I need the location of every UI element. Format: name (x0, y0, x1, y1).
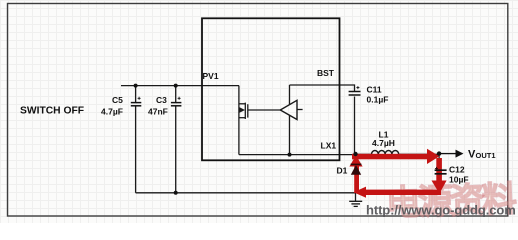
wire ground rail (136, 192, 440, 194)
wire LX internal (239, 154, 356, 156)
transistor Q1 (internal MOSFET) (239, 103, 248, 119)
svg-text:C5: C5 (112, 95, 123, 105)
svg-text:PV1: PV1 (203, 71, 219, 81)
svg-text:SWITCH OFF: SWITCH OFF (20, 106, 84, 117)
wire BST internal (290, 85, 355, 91)
svg-text:BST: BST (317, 68, 335, 78)
wire C3 top lead (175, 86, 177, 102)
wire C11 bottom lead (354, 97, 356, 154)
svg-text:LX1: LX1 (321, 141, 337, 151)
wire C12 top lead (438, 154, 440, 170)
op-amp gate driver triangle (280, 100, 297, 119)
svg-text:4.7µH: 4.7µH (372, 138, 395, 148)
wire driver top feed (289, 85, 291, 105)
wire C5 top lead (135, 86, 137, 102)
wire driver bottom to LX (289, 115, 291, 155)
current loop arrow top (through L1) (352, 149, 440, 164)
node dot C3/ground rail (174, 191, 178, 195)
wire drain-source vertical (238, 86, 240, 155)
capacitor C12 (drawn over red) (435, 165, 469, 185)
svg-text:0.1µF: 0.1µF (367, 95, 389, 105)
node dot driver/LX (288, 153, 292, 157)
svg-text:C12: C12 (449, 165, 465, 175)
IC outline box (202, 18, 340, 160)
wire D1 bottom lead (355, 175, 357, 202)
svg-text:C11: C11 (367, 85, 382, 95)
wire PV1 rail (121, 85, 239, 87)
inductor L1 (356, 130, 441, 155)
node dot C3/PV1 rail (174, 84, 178, 88)
svg-text:OUT1: OUT1 (476, 151, 496, 160)
wire gate lead (248, 109, 280, 111)
svg-text:C3: C3 (156, 95, 167, 105)
current loop arrow right (through C12) (432, 158, 447, 194)
current loop arrow left (through D1) (349, 155, 362, 193)
svg-text:47nF: 47nF (148, 107, 168, 117)
transistor Q1 body arrow (240, 107, 246, 113)
svg-text:10µF: 10µF (449, 175, 469, 185)
node dot LX/D1/L1 (353, 152, 357, 156)
node dot C5/PV1 rail (134, 84, 138, 88)
diode D1 (dark over red) (337, 164, 362, 175)
output wire and arrow VOUT1 (440, 149, 496, 161)
wire C3 bottom lead (175, 106, 177, 193)
svg-text:http://www.go-gddq.com: http://www.go-gddq.com (366, 203, 516, 218)
capacitor C5 (101, 95, 141, 117)
svg-text:4.7µF: 4.7µF (101, 107, 123, 117)
wire driver input stub (297, 109, 303, 111)
capacitor C3 (148, 95, 181, 117)
capacitor C11 (349, 85, 389, 105)
ground symbol (349, 201, 362, 206)
wire C5 bottom lead (135, 106, 137, 193)
wire C12 bottom lead (438, 175, 440, 193)
wire D1 top lead (355, 154, 357, 165)
svg-text:D1: D1 (337, 166, 348, 176)
node dot L1/C12/VOUT (437, 151, 441, 155)
current loop arrow bottom (ground return) (354, 187, 442, 198)
